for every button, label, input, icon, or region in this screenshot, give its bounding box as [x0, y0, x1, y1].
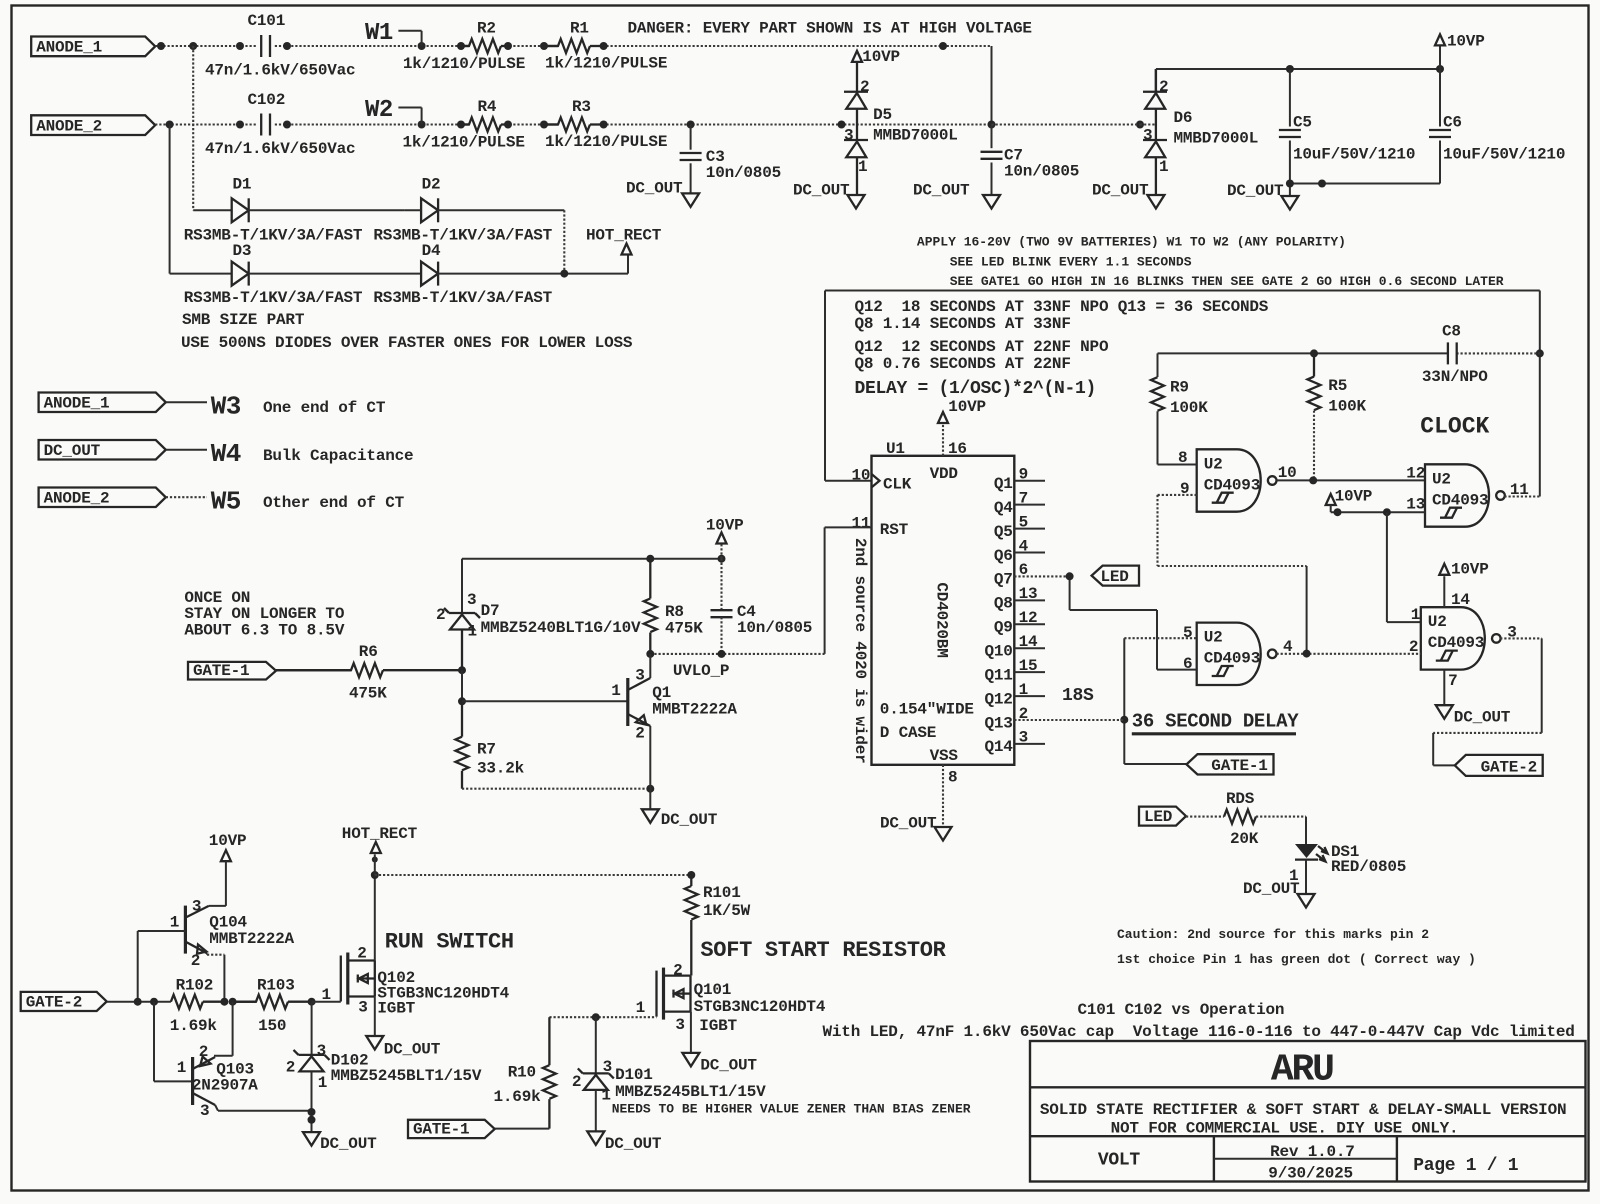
svg-text:HOT_RECT: HOT_RECT: [586, 227, 662, 245]
svg-text:W1: W1: [365, 20, 393, 47]
svg-text:11: 11: [1510, 481, 1529, 499]
svg-text:DC_OUT: DC_OUT: [384, 1041, 441, 1059]
svg-text:3: 3: [1019, 729, 1028, 747]
svg-text:MMBT2222A: MMBT2222A: [652, 700, 737, 718]
resistor R3: [544, 118, 590, 132]
resistor R6: [276, 663, 383, 677]
svg-text:R8: R8: [665, 603, 684, 621]
svg-text:DC_OUT: DC_OUT: [1227, 182, 1284, 200]
svg-text:475K: 475K: [665, 620, 703, 638]
svg-text:20K: 20K: [1230, 830, 1259, 848]
svg-text:D6: D6: [1174, 109, 1193, 127]
svg-text:Q10: Q10: [984, 643, 1012, 661]
svg-text:10VP: 10VP: [948, 398, 986, 416]
svg-text:10uF/50V/1210: 10uF/50V/1210: [1293, 146, 1415, 164]
svg-text:MMBT2222A: MMBT2222A: [209, 930, 294, 948]
ground D101 DC_OUT: [587, 1131, 604, 1145]
svg-text:Page 1 / 1: Page 1 / 1: [1413, 1156, 1519, 1176]
svg-text:IGBT: IGBT: [377, 1000, 415, 1018]
svg-text:11: 11: [852, 515, 871, 533]
svg-text:W3: W3: [211, 392, 241, 422]
svg-text:RS3MB-T/1KV/3A/FAST: RS3MB-T/1KV/3A/FAST: [184, 227, 363, 245]
svg-text:W2: W2: [365, 97, 393, 124]
svg-text:10n/0805: 10n/0805: [1004, 163, 1079, 181]
svg-text:Q104: Q104: [209, 914, 247, 932]
dual diode D6 MMBD7000L: [1155, 69, 1157, 92]
ground D5 DC_OUT: [848, 195, 865, 209]
wire ANODE_1 branch to D1: [192, 46, 194, 210]
net flag GATE-2 right: [1455, 755, 1543, 776]
svg-text:RS3MB-T/1KV/3A/FAST: RS3MB-T/1KV/3A/FAST: [373, 289, 552, 307]
ground Q102 DC_OUT: [374, 997, 376, 1036]
nand gate U2d pins 1 2 3: [1421, 607, 1485, 669]
power 10VP UVLO: [720, 544, 722, 559]
power 10VP at pin13: [1326, 494, 1336, 505]
wire UVLO top rail: [461, 559, 463, 613]
svg-text:1: 1: [1019, 681, 1028, 699]
resistor R9: [1157, 353, 1159, 377]
svg-text:8: 8: [1178, 449, 1187, 467]
ground DS1 DC_OUT: [1298, 894, 1315, 908]
wire GATE-2 row: [107, 1001, 171, 1003]
svg-text:DC_OUT: DC_OUT: [913, 182, 970, 200]
svg-text:12: 12: [1406, 465, 1425, 483]
svg-text:3: 3: [467, 591, 476, 609]
svg-text:DANGER: EVERY PART SHOWN IS AT: DANGER: EVERY PART SHOWN IS AT HIGH VOLT…: [628, 20, 1032, 38]
svg-text:Q4: Q4: [994, 499, 1013, 517]
pin Q6: [1014, 552, 1045, 554]
svg-text:10VP: 10VP: [209, 832, 247, 850]
svg-text:R3: R3: [572, 98, 591, 116]
svg-text:Q8 1.14 SECONDS AT 33NF: Q8 1.14 SECONDS AT 33NF: [855, 315, 1071, 333]
svg-text:47n/1.6kV/650Vac: 47n/1.6kV/650Vac: [205, 140, 355, 158]
svg-text:Other end of CT: Other end of CT: [263, 494, 405, 512]
svg-text:Q8 0.76 SECONDS AT 22NF: Q8 0.76 SECONDS AT 22NF: [855, 355, 1071, 373]
svg-text:3: 3: [675, 1016, 684, 1034]
svg-text:D5: D5: [873, 106, 892, 124]
svg-text:3: 3: [635, 666, 644, 684]
svg-text:C8: C8: [1442, 323, 1461, 341]
pin 8 VSS ground: [942, 765, 944, 827]
svg-text:VSS: VSS: [930, 747, 959, 765]
svg-text:U1: U1: [886, 440, 905, 458]
svg-text:R103: R103: [257, 977, 295, 995]
power 10VP above D5: [852, 51, 862, 62]
svg-text:1: 1: [858, 158, 867, 176]
svg-text:R10: R10: [508, 1063, 536, 1081]
svg-text:DC_OUT: DC_OUT: [605, 1135, 662, 1153]
power 10VP top right: [1439, 46, 1441, 69]
svg-text:1k/1210/PULSE: 1k/1210/PULSE: [545, 133, 667, 151]
svg-text:6: 6: [1019, 561, 1028, 579]
svg-text:10VP: 10VP: [1451, 560, 1489, 578]
wire Q104 base: [137, 931, 139, 1002]
pin Q11: [1014, 671, 1045, 673]
svg-text:1st choice Pin 1 has green dot: 1st choice Pin 1 has green dot ( Correct…: [1117, 952, 1476, 967]
wire U2c output pin4: [1277, 653, 1421, 655]
svg-text:Q1: Q1: [652, 684, 671, 702]
svg-text:1: 1: [468, 623, 477, 641]
zener diode D7: [449, 612, 475, 614]
svg-text:SOFT START RESISTOR: SOFT START RESISTOR: [700, 938, 946, 963]
svg-text:1: 1: [636, 999, 645, 1017]
wire UVLO_P: [650, 653, 824, 655]
svg-text:13: 13: [1019, 585, 1038, 603]
svg-text:DC_OUT: DC_OUT: [880, 815, 937, 833]
svg-text:R4: R4: [478, 98, 497, 116]
net flag ANODE_2 W5: [39, 488, 166, 508]
capacitor C102: [260, 114, 262, 136]
svg-text:100K: 100K: [1328, 398, 1366, 416]
resistor R4: [461, 118, 501, 132]
svg-text:D3: D3: [233, 242, 252, 260]
pin 16 VDD: [942, 424, 944, 456]
svg-text:16: 16: [948, 440, 967, 458]
svg-text:SOLID STATE RECTIFIER & SOFT S: SOLID STATE RECTIFIER & SOFT START & DEL…: [1040, 1101, 1567, 1119]
svg-text:R101: R101: [703, 884, 741, 902]
svg-text:14: 14: [1451, 591, 1470, 609]
svg-text:C102: C102: [248, 91, 286, 109]
svg-text:DELAY = (1/OSC)*2^(N-1): DELAY = (1/OSC)*2^(N-1): [855, 379, 1097, 399]
svg-text:2: 2: [572, 1073, 581, 1091]
svg-text:ABOUT 6.3 TO 8.5V: ABOUT 6.3 TO 8.5V: [184, 622, 344, 640]
capacitor C3: [690, 125, 692, 150]
svg-text:1K/5W: 1K/5W: [703, 902, 751, 920]
svg-text:3: 3: [844, 127, 853, 145]
diode D3: [232, 262, 249, 286]
svg-text:SEE GATE1 GO HIGH IN 16 BLINKS: SEE GATE1 GO HIGH IN 16 BLINKS THEN SEE …: [950, 274, 1504, 289]
svg-text:C6: C6: [1443, 114, 1462, 132]
pin Q14: [1014, 743, 1045, 745]
svg-text:3: 3: [358, 999, 367, 1017]
svg-text:2: 2: [1159, 78, 1168, 96]
wire GATE-1 net row: [549, 1016, 656, 1018]
svg-text:1k/1210/PULSE: 1k/1210/PULSE: [403, 134, 525, 152]
svg-text:C101: C101: [248, 12, 286, 30]
net flag LED bottom: [1139, 807, 1186, 826]
svg-text:5: 5: [1019, 513, 1028, 531]
svg-text:VOLT: VOLT: [1098, 1151, 1141, 1171]
svg-text:10: 10: [1278, 464, 1297, 482]
wire U2d output pin3 to GATE-2: [1500, 637, 1542, 639]
svg-text:R102: R102: [176, 977, 214, 995]
svg-text:10VP: 10VP: [1447, 33, 1485, 51]
svg-text:RDS: RDS: [1226, 790, 1255, 808]
svg-text:RED/0805: RED/0805: [1331, 858, 1406, 876]
net flag GATE-1 left: [188, 662, 276, 680]
ground C5 DC_OUT: [1281, 196, 1298, 210]
svg-text:2: 2: [199, 1043, 208, 1061]
svg-text:2: 2: [286, 1059, 295, 1077]
svg-text:R9: R9: [1170, 379, 1189, 397]
LED DS1: [1305, 817, 1307, 844]
svg-text:Q5: Q5: [994, 523, 1013, 541]
svg-text:10n/0805: 10n/0805: [737, 619, 812, 637]
svg-text:18S: 18S: [1062, 686, 1094, 706]
svg-text:1k/1210/PULSE: 1k/1210/PULSE: [403, 55, 525, 73]
resistor R101: [685, 886, 698, 920]
wire D1 to D2: [249, 209, 405, 211]
pin Q13: [1014, 719, 1124, 721]
svg-text:D2: D2: [422, 176, 441, 194]
svg-text:SEE LED BLINK EVERY 1.1 SECOND: SEE LED BLINK EVERY 1.1 SECONDS: [950, 255, 1192, 270]
pin Q1: [1014, 480, 1045, 482]
resistor R7: [456, 737, 469, 771]
wire ANODE_2 branch to D3: [169, 125, 171, 274]
capacitor C101: [260, 35, 262, 57]
IC U1 CD4020BM body: [872, 456, 1015, 765]
svg-text:HOT_RECT: HOT_RECT: [342, 825, 418, 843]
svg-text:15: 15: [1019, 657, 1038, 675]
svg-text:D CASE: D CASE: [880, 724, 936, 742]
svg-text:36 SECOND DELAY: 36 SECOND DELAY: [1132, 711, 1299, 733]
svg-text:CD4093: CD4093: [1432, 491, 1488, 509]
svg-text:R5: R5: [1328, 377, 1347, 395]
capacitor C5: [1289, 69, 1291, 127]
svg-text:2: 2: [673, 961, 682, 979]
svg-text:33N/NPO: 33N/NPO: [1422, 368, 1488, 386]
svg-text:7: 7: [1019, 489, 1028, 507]
resistor R2: [461, 39, 501, 53]
svg-text:ANODE_2: ANODE_2: [36, 118, 102, 136]
junction dots ANODE_2 row: [166, 121, 174, 129]
svg-text:R7: R7: [477, 741, 496, 759]
svg-text:150: 150: [258, 1017, 286, 1035]
net flag ANODE_1: [31, 37, 155, 57]
svg-text:3: 3: [317, 1042, 326, 1060]
junction Q7 LED: [1066, 572, 1074, 580]
svg-text:DC_OUT: DC_OUT: [700, 1057, 757, 1075]
svg-text:GATE-2: GATE-2: [26, 994, 82, 1012]
svg-text:ANODE_1: ANODE_1: [44, 395, 110, 413]
svg-text:MMBD7000L: MMBD7000L: [1174, 130, 1259, 148]
svg-text:LED: LED: [1101, 568, 1129, 586]
svg-text:1k/1210/PULSE: 1k/1210/PULSE: [545, 55, 667, 73]
pin Q4: [1014, 504, 1045, 506]
svg-text:VDD: VDD: [930, 465, 958, 483]
svg-text:3: 3: [200, 1102, 209, 1120]
svg-text:UVLO_P: UVLO_P: [673, 662, 729, 680]
svg-text:1: 1: [318, 1074, 327, 1092]
svg-text:GATE-1: GATE-1: [193, 662, 249, 680]
wire Q7 to U2c pin6: [1069, 576, 1071, 610]
svg-text:10: 10: [852, 467, 871, 485]
svg-text:RUN SWITCH: RUN SWITCH: [385, 930, 514, 955]
wire U2b output pin11 feedback: [1504, 495, 1539, 497]
svg-text:3: 3: [192, 898, 201, 916]
svg-text:NEEDS TO BE HIGHER VALUE ZENER: NEEDS TO BE HIGHER VALUE ZENER THAN BIAS…: [612, 1102, 971, 1117]
resistor R102: [171, 995, 203, 1009]
svg-text:DC_OUT: DC_OUT: [320, 1135, 377, 1153]
net flag GATE-1 middle: [1123, 720, 1125, 764]
svg-text:Q12: Q12: [984, 690, 1012, 708]
svg-text:LED: LED: [1144, 808, 1172, 826]
wire CLK feedback loop: [825, 480, 872, 482]
svg-text:STAY ON LONGER TO: STAY ON LONGER TO: [184, 605, 344, 623]
svg-text:USE 500NS DIODES OVER FASTER O: USE 500NS DIODES OVER FASTER ONES FOR LO…: [181, 334, 633, 352]
dual diode D5 MMBD7000L: [856, 62, 858, 92]
capacitor C4: [720, 559, 722, 611]
wire D3 to D4: [249, 273, 421, 275]
svg-text:2nd source 4020 is wider: 2nd source 4020 is wider: [851, 538, 869, 764]
svg-text:R6: R6: [359, 643, 378, 661]
svg-text:Q101: Q101: [694, 981, 732, 999]
svg-text:DC_OUT: DC_OUT: [1454, 709, 1511, 727]
title block: [1030, 1041, 1586, 1182]
svg-text:Q14: Q14: [984, 738, 1013, 756]
net flag DC_OUT W4: [39, 440, 166, 460]
net flag LED middle: [1092, 566, 1139, 586]
capacitor C7: [991, 125, 993, 149]
svg-text:DC_OUT: DC_OUT: [626, 180, 683, 198]
wire pin13 to U2d pin1: [1386, 512, 1388, 622]
svg-text:33.2k: 33.2k: [477, 760, 525, 778]
svg-text:5: 5: [1183, 624, 1192, 642]
junction GATE-1 D7 R7: [458, 666, 466, 674]
capacitor C8: [1456, 352, 1539, 354]
svg-text:Rev 1.0.7: Rev 1.0.7: [1270, 1143, 1355, 1161]
svg-text:1: 1: [1411, 606, 1420, 624]
wire C7 to D6 row: [992, 123, 1141, 125]
svg-text:W4: W4: [211, 439, 241, 469]
svg-text:12: 12: [1019, 609, 1038, 627]
svg-text:10uF/50V/1210: 10uF/50V/1210: [1443, 146, 1565, 164]
svg-text:D4: D4: [422, 242, 441, 260]
svg-text:MMBD7000L: MMBD7000L: [873, 127, 958, 145]
svg-text:CLK: CLK: [883, 476, 912, 494]
svg-text:U2: U2: [1432, 470, 1451, 488]
capacitor C6: [1439, 69, 1441, 127]
svg-text:SMB SIZE PART: SMB SIZE PART: [182, 311, 305, 329]
svg-text:13: 13: [1406, 496, 1425, 514]
ground Q101 DC_OUT: [690, 1012, 692, 1053]
ground Q1 DC_OUT: [649, 789, 651, 810]
svg-text:GATE-2: GATE-2: [1481, 758, 1537, 776]
svg-text:3: 3: [1143, 127, 1152, 145]
zener diode D101: [595, 1017, 597, 1073]
svg-text:DC_OUT: DC_OUT: [1243, 880, 1300, 898]
wire top right corner down: [991, 46, 993, 125]
ground D6 DC_OUT: [1147, 195, 1164, 209]
svg-text:4: 4: [1283, 638, 1293, 656]
transistor Q104 MMBT2222A: [209, 905, 226, 907]
svg-text:1.69k: 1.69k: [494, 1088, 542, 1106]
svg-text:9: 9: [1019, 466, 1028, 484]
nand gate U2a pins 8 9 10: [1197, 449, 1261, 511]
svg-text:0.154"WIDE: 0.154"WIDE: [880, 701, 974, 719]
wire ANODE_2 row: [155, 123, 256, 125]
net flag ANODE_1 W3: [39, 393, 166, 413]
pin Q8: [1014, 599, 1045, 601]
pin Q12: [1014, 695, 1045, 697]
svg-text:475K: 475K: [349, 685, 387, 703]
ground U2 pin7 DC_OUT: [1443, 670, 1445, 706]
svg-text:DC_OUT: DC_OUT: [1092, 182, 1149, 200]
svg-text:DC_OUT: DC_OUT: [793, 182, 850, 200]
svg-text:Caution: 2nd source for this m: Caution: 2nd source for this marks pin 2: [1117, 927, 1429, 942]
svg-text:U2: U2: [1204, 455, 1223, 473]
svg-text:GATE-1: GATE-1: [413, 1121, 469, 1139]
svg-text:100K: 100K: [1170, 399, 1208, 417]
svg-text:1.69k: 1.69k: [170, 1017, 218, 1035]
wire R7 bottom to Q1 emitter: [462, 788, 650, 790]
resistor RDS: [1224, 810, 1256, 824]
svg-text:1: 1: [1159, 158, 1168, 176]
pin Q5: [1014, 528, 1045, 530]
svg-text:Q12 18 SECONDS AT 33NF NPO Q1: Q12 18 SECONDS AT 33NF NPO Q13 = 36 SECO…: [855, 298, 1269, 316]
svg-text:Q8: Q8: [994, 595, 1013, 613]
svg-text:U2: U2: [1428, 613, 1447, 631]
power flag HOT_RECT: [622, 244, 632, 255]
wire HOT_RECT rail to R101: [375, 874, 692, 876]
IGBT Q102: [312, 1001, 341, 1003]
svg-text:1: 1: [322, 986, 331, 1004]
svg-text:10n/0805: 10n/0805: [706, 164, 781, 182]
ground D102 DC_OUT: [303, 1132, 320, 1146]
svg-text:RST: RST: [880, 521, 909, 539]
net flag GATE-2 left: [21, 992, 107, 1011]
svg-text:2: 2: [436, 606, 445, 624]
svg-text:4: 4: [1019, 537, 1029, 555]
IGBT Q101: [655, 971, 657, 1017]
svg-text:MMBZ5245BLT1/15V: MMBZ5245BLT1/15V: [615, 1083, 766, 1101]
resistor R5: [1308, 377, 1321, 411]
svg-text:GATE-1: GATE-1: [1211, 757, 1267, 775]
transistor Q1 MMBT2222A: [462, 700, 628, 702]
svg-text:RS3MB-T/1KV/3A/FAST: RS3MB-T/1KV/3A/FAST: [373, 227, 552, 245]
svg-text:CD4020BM: CD4020BM: [933, 582, 951, 657]
svg-text:2: 2: [357, 944, 366, 962]
svg-text:STGB3NC120HDT4: STGB3NC120HDT4: [694, 998, 826, 1016]
diode D1: [232, 198, 249, 222]
svg-text:W5: W5: [211, 487, 241, 517]
transistor Q103 2N2907A: [153, 1002, 155, 1082]
svg-text:C5: C5: [1293, 114, 1312, 132]
wire D6 top to C5 C6: [1155, 69, 1157, 92]
ground C3 DC_OUT: [682, 193, 699, 207]
junction dots ANODE_1 row: [157, 42, 165, 50]
svg-text:DC_OUT: DC_OUT: [44, 442, 101, 460]
svg-text:RS3MB-T/1KV/3A/FAST: RS3MB-T/1KV/3A/FAST: [184, 289, 363, 307]
wire D2 to HOT_RECT corner: [438, 209, 564, 211]
wire Q13 to U2c pin5: [1123, 638, 1125, 720]
svg-text:9: 9: [1180, 480, 1189, 498]
svg-text:R2: R2: [477, 20, 496, 38]
svg-text:Q7: Q7: [994, 571, 1013, 589]
wire U2a output pin10: [1277, 479, 1426, 481]
diode D4: [421, 262, 438, 286]
svg-text:CLOCK: CLOCK: [1420, 414, 1489, 440]
svg-text:Q1: Q1: [994, 475, 1013, 493]
pin Q9: [1014, 623, 1045, 625]
zener diode D102: [311, 1002, 313, 1055]
svg-text:U2: U2: [1204, 629, 1223, 647]
svg-text:1: 1: [177, 1059, 186, 1077]
svg-text:1: 1: [601, 1087, 610, 1105]
svg-text:R1: R1: [570, 20, 589, 38]
svg-text:8: 8: [948, 769, 957, 787]
svg-text:9/30/2025: 9/30/2025: [1268, 1165, 1353, 1183]
net flag ANODE_2: [31, 115, 155, 135]
svg-text:ARU: ARU: [1271, 1049, 1333, 1092]
power 10VP pin14: [1443, 576, 1445, 607]
wire C5 to C6 bottom: [1290, 183, 1440, 185]
svg-text:2: 2: [1019, 705, 1028, 723]
svg-text:D7: D7: [481, 602, 500, 620]
nand gate U2c pins 5 6 4: [1197, 623, 1261, 685]
svg-text:47n/1.6kV/650Vac: 47n/1.6kV/650Vac: [205, 62, 355, 80]
svg-text:With LED, 47nF 1.6kV 650Vac ca: With LED, 47nF 1.6kV 650Vac cap Voltage …: [823, 1023, 1575, 1041]
